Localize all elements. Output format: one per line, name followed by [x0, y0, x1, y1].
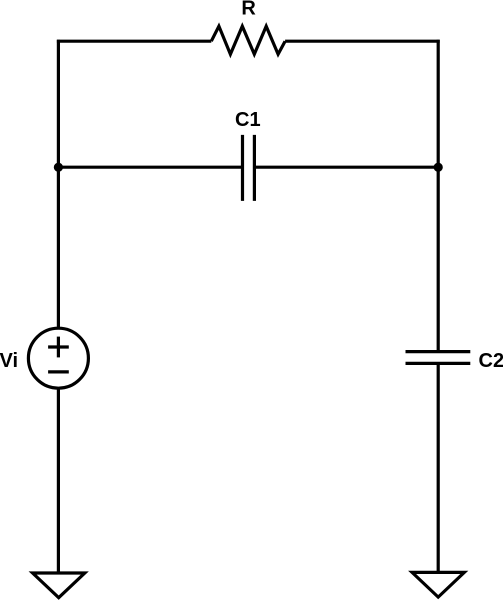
voltage source Vi	[28, 328, 88, 388]
wire middle-left horizontal	[58, 166, 242, 169]
ground right	[412, 572, 464, 597]
svg-text:C2: C2	[479, 350, 503, 372]
wire top-right horizontal	[285, 40, 440, 43]
svg-text:R: R	[241, 0, 256, 20]
svg-text:Vi: Vi	[0, 350, 18, 372]
node junction dot left	[54, 163, 63, 172]
wire middle-right horizontal	[254, 166, 438, 169]
wire left vertical upper	[57, 40, 60, 329]
capacitor C1	[243, 135, 255, 201]
wire left vertical lower	[57, 388, 60, 573]
wire right vertical lower	[437, 363, 440, 572]
resistor R	[211, 26, 285, 54]
ground left	[33, 573, 85, 598]
node junction dot right	[434, 163, 443, 172]
svg-text:C1: C1	[235, 109, 261, 131]
wire right vertical upper	[437, 40, 440, 352]
wire top-left horizontal	[57, 40, 211, 43]
capacitor C2	[406, 352, 471, 364]
